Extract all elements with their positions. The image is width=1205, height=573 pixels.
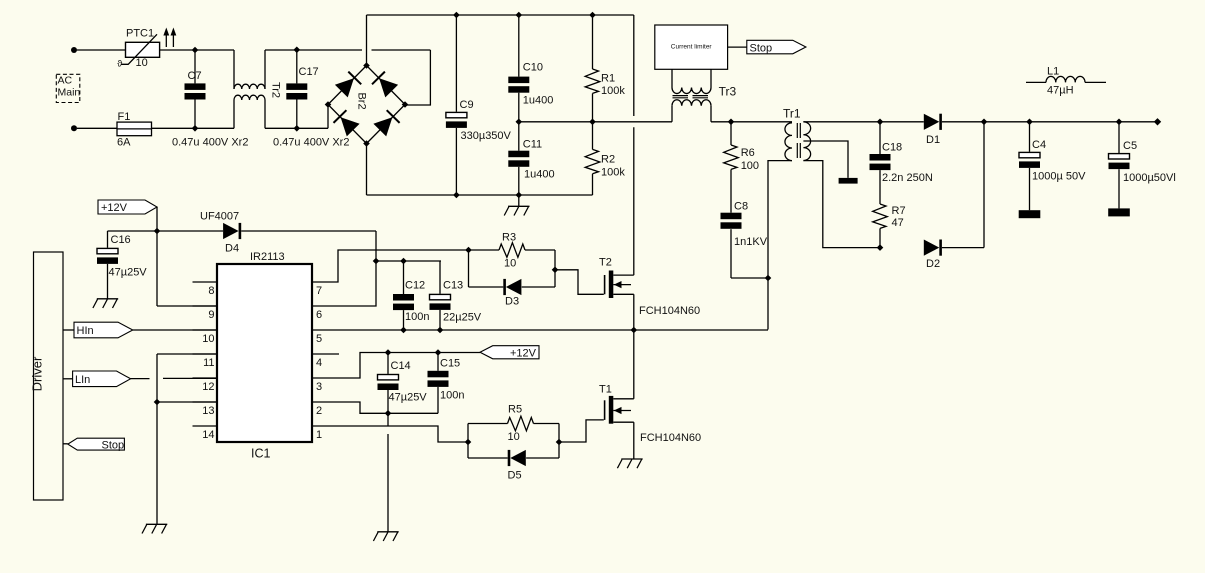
- node: [556, 439, 563, 446]
- node: [1026, 119, 1033, 126]
- svg-text:Tr2: Tr2: [270, 82, 282, 98]
- wire: [327, 105, 329, 129]
- wire: [265, 127, 328, 129]
- wire: [156, 207, 158, 306]
- svg-text:1n1KV: 1n1KV: [734, 236, 768, 248]
- svg-text:6A: 6A: [117, 137, 131, 149]
- capacitor C7: [194, 50, 196, 83]
- wire: [728, 46, 747, 48]
- capacitor C4: [1029, 122, 1031, 152]
- svg-text:R5: R5: [508, 404, 522, 416]
- wire: [63, 378, 73, 380]
- AC mains terminal top: [71, 47, 77, 53]
- svg-text:C15: C15: [440, 358, 460, 370]
- svg-text:47µ25V: 47µ25V: [389, 392, 428, 404]
- svg-text:2: 2: [316, 405, 322, 417]
- svg-text:Tr3: Tr3: [719, 84, 737, 98]
- svg-text:11: 11: [203, 357, 214, 369]
- ground: [621, 458, 642, 460]
- node: [453, 192, 460, 199]
- svg-text:2.2n 250N: 2.2n 250N: [882, 172, 933, 184]
- capacitor C10: [518, 15, 520, 77]
- wire half-bridge supply: [633, 15, 635, 116]
- svg-text:100k: 100k: [601, 167, 625, 179]
- wire DC+ top rail: [367, 14, 634, 16]
- node: [728, 119, 735, 126]
- capacitor C9: [455, 15, 457, 112]
- ground: [146, 523, 167, 525]
- current limiter box: [655, 25, 728, 69]
- svg-text:100: 100: [741, 160, 759, 172]
- svg-text:C14: C14: [391, 360, 411, 372]
- arrows: [165, 31, 167, 47]
- svg-text:10: 10: [508, 431, 520, 443]
- wire bottom rail: [367, 194, 593, 196]
- node: [516, 119, 523, 126]
- flag Stop: [747, 40, 806, 54]
- capacitor C17: [296, 50, 298, 84]
- flag LIn: [73, 371, 131, 387]
- svg-text:1000µ 50V: 1000µ 50V: [1032, 171, 1086, 183]
- svg-text:C17: C17: [299, 66, 319, 78]
- svg-text:C5: C5: [1123, 140, 1137, 152]
- wire: [312, 231, 376, 306]
- driver box: [34, 252, 64, 500]
- wire mid rail: [519, 121, 672, 123]
- node: [294, 125, 301, 132]
- node: [589, 12, 596, 19]
- svg-text:22µ25V: 22µ25V: [443, 312, 482, 324]
- capacitor C15: [437, 353, 439, 371]
- wire pin3: [312, 353, 480, 379]
- node: [437, 327, 444, 334]
- wire pin11: [157, 353, 217, 355]
- svg-text:R2: R2: [601, 154, 615, 166]
- wire: [366, 15, 368, 66]
- svg-text:100n: 100n: [405, 311, 429, 323]
- wire: [160, 49, 234, 51]
- wire: [156, 354, 158, 524]
- resistor R6: [730, 122, 732, 145]
- svg-text:F1: F1: [118, 111, 131, 123]
- diode D3: [468, 250, 470, 287]
- node: [1116, 119, 1123, 126]
- svg-text:4: 4: [316, 357, 322, 369]
- capacitor C5: [1118, 122, 1120, 153]
- ground bar: [1108, 208, 1130, 216]
- svg-text:Stop: Stop: [102, 440, 125, 452]
- wire: [63, 329, 74, 331]
- ground bar: [839, 178, 858, 184]
- wire: [983, 122, 985, 248]
- wire T2 gate: [555, 270, 604, 295]
- ic IC1 IR2113: [217, 264, 312, 442]
- node left vertex: [325, 101, 332, 108]
- node top vertex: [363, 62, 370, 69]
- bridge rectifier Br2: [328, 66, 367, 105]
- common-mode choke Tr2: [233, 50, 235, 89]
- wire pin10: [133, 329, 217, 331]
- transformer Tr3: [671, 69, 673, 87]
- node: [465, 439, 472, 446]
- capacitor C16: [107, 231, 109, 248]
- wire VS mid rail: [312, 329, 768, 331]
- svg-text:R7: R7: [892, 205, 906, 217]
- wire output rail: [984, 121, 1158, 123]
- svg-text:7: 7: [316, 285, 322, 297]
- svg-text:D3: D3: [505, 296, 519, 308]
- node: [516, 12, 523, 19]
- inductor L1: [1026, 81, 1046, 83]
- svg-text:C16: C16: [111, 234, 131, 246]
- svg-text:C11: C11: [523, 139, 542, 151]
- ground: [377, 531, 398, 533]
- resistor R7: [873, 204, 888, 228]
- AC mains terminal bottom: [71, 125, 77, 131]
- svg-text:T1: T1: [599, 384, 612, 396]
- svg-text:47µ25V: 47µ25V: [109, 267, 148, 279]
- svg-text:R3: R3: [502, 232, 516, 244]
- svg-text:D4: D4: [225, 243, 239, 255]
- svg-text:AC: AC: [58, 75, 73, 87]
- capacitor C18: [879, 122, 881, 154]
- wire pin2: [312, 402, 438, 413]
- wire pin13: [157, 401, 217, 403]
- svg-text:FCH104N60: FCH104N60: [639, 305, 700, 317]
- svg-text:6: 6: [316, 309, 322, 321]
- svg-text:HIn: HIn: [77, 325, 94, 337]
- wire pin9: [157, 305, 217, 307]
- wire: [366, 144, 368, 196]
- svg-text:1: 1: [316, 429, 322, 441]
- wire pin1: [312, 426, 468, 442]
- svg-text:0.47u 400V Xr2: 0.47u 400V Xr2: [172, 137, 248, 149]
- flag Stop: [68, 438, 125, 450]
- node: [192, 47, 199, 54]
- flag HIn: [74, 322, 133, 338]
- node: [981, 119, 988, 126]
- capacitor C8: [721, 213, 742, 220]
- svg-text:47µH: 47µH: [1047, 85, 1074, 97]
- svg-text:100k: 100k: [601, 85, 625, 97]
- svg-text:+12V: +12V: [510, 348, 537, 360]
- ground: [97, 298, 118, 300]
- svg-text:Tr1: Tr1: [783, 107, 801, 121]
- svg-text:330µ350V: 330µ350V: [461, 130, 512, 142]
- ground: [518, 195, 520, 206]
- svg-text:Current limiter: Current limiter: [671, 43, 713, 50]
- wire secondary top: [803, 121, 923, 123]
- node: [435, 349, 442, 356]
- svg-text:10: 10: [136, 57, 148, 69]
- svg-text:C12: C12: [405, 280, 425, 292]
- svg-text:C13: C13: [443, 280, 463, 292]
- diode D5: [468, 457, 508, 459]
- svg-text:LIn: LIn: [75, 374, 90, 386]
- wire pin7 to gate network: [312, 250, 499, 282]
- node right vertex: [402, 101, 409, 108]
- transistor T1: [604, 400, 606, 420]
- svg-text:3: 3: [316, 381, 322, 393]
- svg-text:R6: R6: [741, 147, 755, 159]
- transformer Tr1: [785, 123, 792, 161]
- wire: [711, 121, 792, 123]
- svg-text:1u400: 1u400: [523, 95, 554, 107]
- node: [765, 275, 772, 282]
- wire pin12: [131, 378, 150, 380]
- svg-text:100n: 100n: [440, 390, 464, 402]
- node: [154, 228, 161, 235]
- svg-text:D2: D2: [926, 258, 940, 270]
- svg-text:C9: C9: [460, 99, 474, 111]
- svg-text:C8: C8: [734, 201, 748, 213]
- svg-text:1000µ50Vl: 1000µ50Vl: [1123, 172, 1176, 184]
- wire: [63, 443, 68, 445]
- node: [552, 267, 559, 274]
- svg-text:8: 8: [208, 285, 214, 297]
- svg-text:Driver: Driver: [30, 356, 45, 391]
- node: [294, 47, 301, 54]
- svg-text:R1: R1: [601, 73, 615, 85]
- node: [400, 327, 407, 334]
- svg-text:12: 12: [202, 381, 214, 393]
- diode D2: [924, 240, 940, 256]
- wire secondary bottom: [803, 161, 880, 248]
- svg-text:C18: C18: [882, 142, 902, 154]
- wire: [77, 127, 117, 129]
- thermistor PTC1: [126, 42, 160, 57]
- diode D4: [157, 230, 223, 232]
- svg-text:10: 10: [202, 333, 214, 345]
- svg-text:47: 47: [892, 217, 904, 229]
- svg-text:C4: C4: [1032, 139, 1046, 151]
- svg-text:Br2: Br2: [356, 92, 368, 109]
- svg-text:Stop: Stop: [750, 43, 773, 55]
- resistor R1: [592, 15, 594, 69]
- flag +12V: [98, 200, 157, 214]
- wire: [77, 49, 126, 51]
- AC Main box: [56, 74, 80, 102]
- node: [877, 244, 884, 251]
- svg-text:+12V: +12V: [101, 202, 128, 214]
- IC pin stubs left (8-14): [193, 281, 218, 283]
- svg-text:L1: L1: [1047, 66, 1059, 78]
- node: [154, 399, 161, 406]
- svg-text:D5: D5: [508, 470, 522, 482]
- node: [400, 258, 407, 265]
- resistor R2: [592, 122, 594, 150]
- capacitor C11: [518, 122, 520, 151]
- svg-text:14: 14: [202, 429, 214, 441]
- capacitor C13: [439, 261, 441, 294]
- svg-text:D1: D1: [926, 134, 940, 146]
- output port: [1154, 118, 1161, 125]
- wire: [405, 50, 430, 105]
- svg-text:10: 10: [504, 258, 516, 270]
- wire: [387, 413, 389, 425]
- node: [631, 327, 638, 334]
- svg-text:5: 5: [316, 333, 322, 345]
- svg-text:PTC1: PTC1: [126, 28, 154, 40]
- svg-text:T2: T2: [599, 257, 612, 269]
- node bottom vertex: [363, 140, 370, 147]
- node: [589, 119, 596, 126]
- svg-text:Main: Main: [58, 87, 81, 99]
- wire: [152, 127, 235, 129]
- node: [453, 12, 460, 19]
- resistor R5: [468, 423, 508, 425]
- node: [385, 349, 392, 356]
- svg-text:13: 13: [202, 405, 214, 417]
- node: [465, 247, 472, 254]
- node: [385, 410, 392, 417]
- wire secondary mid tap: [803, 141, 848, 178]
- wire: [265, 49, 362, 51]
- node: [516, 192, 523, 199]
- ground bar: [1019, 210, 1041, 218]
- capacitor C14: [387, 353, 389, 374]
- svg-text:UF4007: UF4007: [200, 211, 239, 223]
- diode D1: [924, 114, 940, 130]
- svg-text:1u400: 1u400: [524, 169, 555, 181]
- svg-text:C7: C7: [188, 70, 202, 82]
- transistor T2: [604, 275, 606, 294]
- resistor R3: [499, 243, 525, 258]
- node: [192, 125, 199, 132]
- svg-text:FCH104N60: FCH104N60: [640, 432, 701, 444]
- svg-text:ϑ: ϑ: [117, 59, 122, 69]
- svg-text:C10: C10: [523, 62, 543, 74]
- wire T1 gate: [559, 420, 604, 442]
- node: [373, 258, 380, 265]
- wire: [376, 260, 441, 262]
- fuse F1: [117, 122, 152, 136]
- svg-text:IR2113: IR2113: [250, 251, 285, 263]
- flag +12V: [480, 346, 539, 359]
- svg-text:0.47u 400V Xr2: 0.47u 400V Xr2: [273, 137, 349, 149]
- svg-text:IC1: IC1: [251, 447, 271, 461]
- svg-text:9: 9: [208, 309, 214, 321]
- node: [877, 119, 884, 126]
- wire: [108, 230, 158, 232]
- capacitor C12: [403, 261, 405, 294]
